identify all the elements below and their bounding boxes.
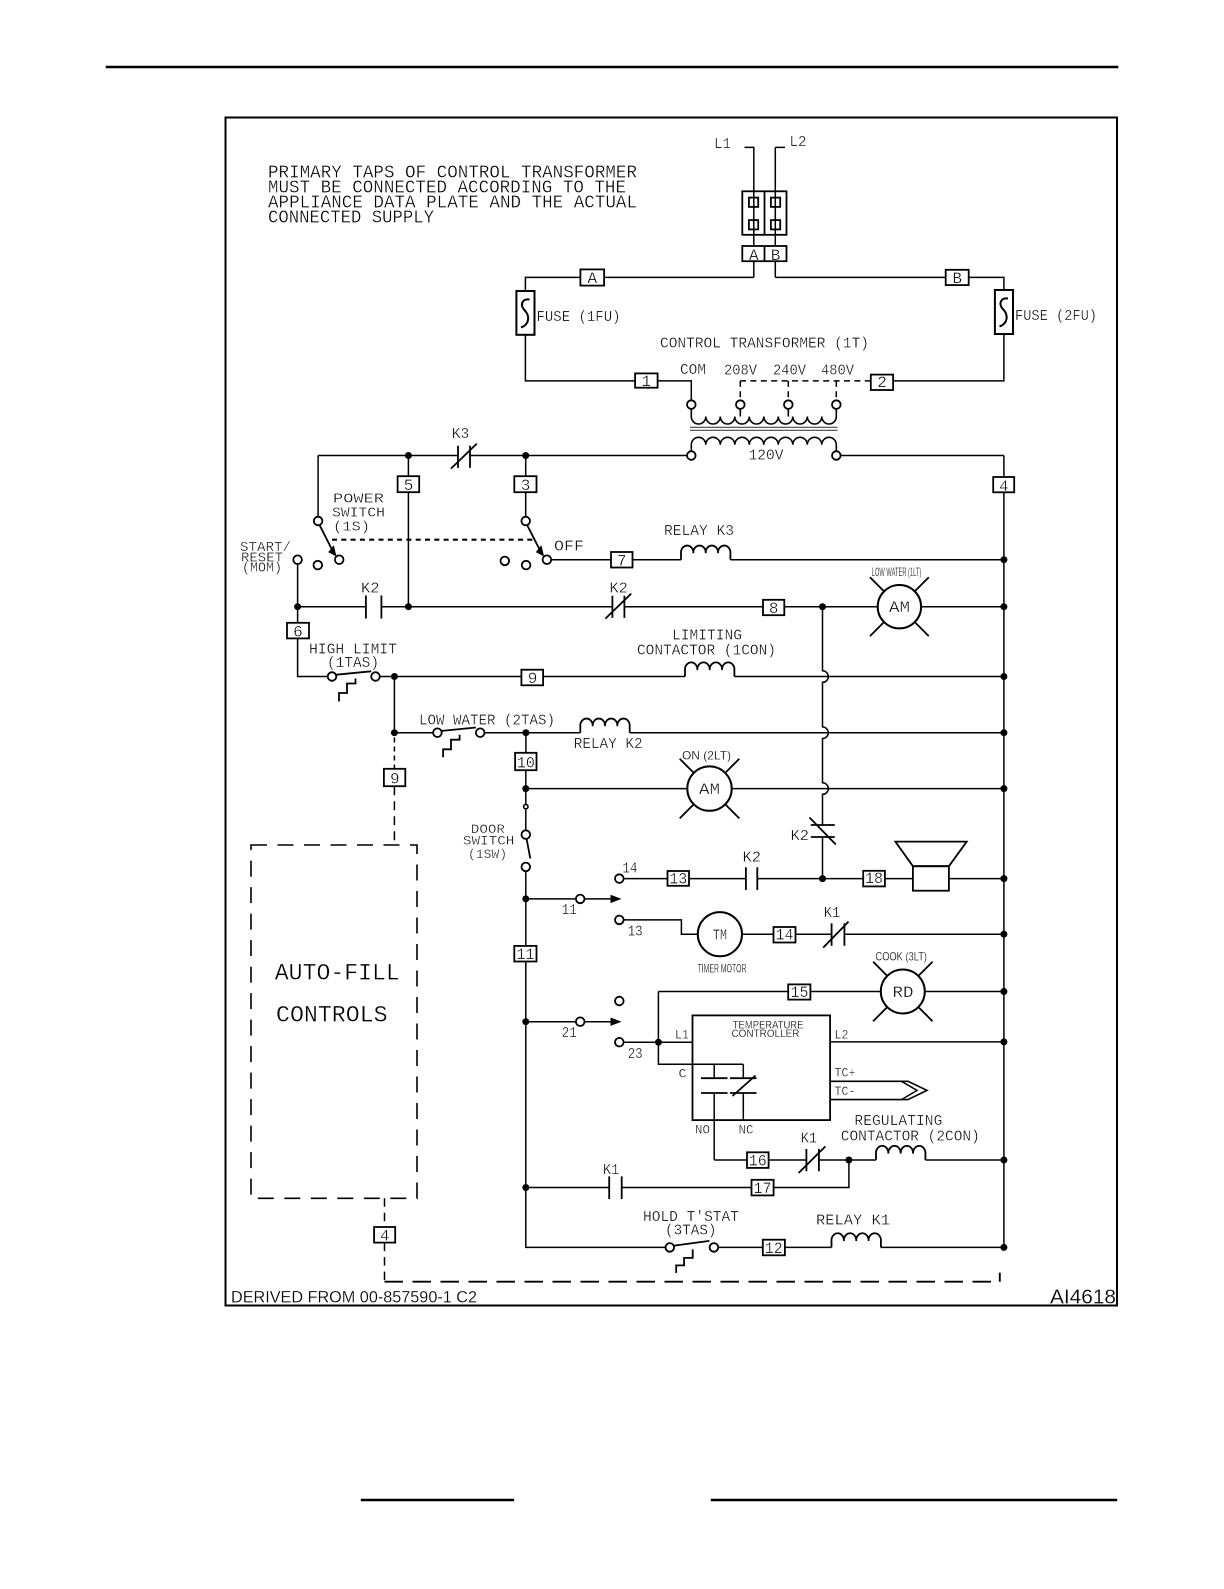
lamp 2LT rays: [680, 759, 740, 819]
wire box10 stub: [525, 733, 527, 753]
relay K2 coil: [580, 719, 629, 733]
svg-text:A: A: [749, 247, 759, 265]
wire tag 14 to K1 NC: [796, 933, 832, 935]
transformer 1T primary terminal 240V: [784, 400, 793, 409]
svg-text:K2: K2: [361, 581, 380, 598]
contact K1 NC rung 13: [823, 922, 848, 948]
wire rung 17 to K1 NO: [526, 1187, 609, 1189]
svg-text:23: 23: [628, 1046, 643, 1063]
node tag 4 auto-fill: [374, 1227, 395, 1243]
node tag 3: [514, 476, 536, 492]
wire 120V rail right: [841, 455, 1004, 457]
svg-text:L1: L1: [714, 136, 731, 153]
svg-text:480V: 480V: [821, 362, 854, 379]
controller internal NO drop: [713, 1064, 715, 1078]
node tag 1: [635, 373, 658, 387]
node tag 6: [297, 607, 299, 623]
svg-text:6: 6: [293, 623, 303, 641]
svg-text:LOW WATER (2TAS): LOW WATER (2TAS): [419, 713, 555, 730]
wire relay K3 coil to right rail: [730, 559, 1004, 561]
svg-text:3: 3: [521, 477, 531, 495]
svg-text:CONTROLS: CONTROLS: [276, 1003, 388, 1029]
thermostat 3TAS heater element: [676, 1249, 693, 1273]
door switch 1SW blade: [527, 839, 531, 859]
node tag 9 auto-fill: [384, 769, 405, 786]
wire tag 16 to K1 NC: [769, 1159, 807, 1161]
timer switch common arm rung 21: [526, 1021, 614, 1023]
junction dot rung14 rail: [1000, 875, 1007, 882]
node tag 9: [521, 670, 543, 686]
wire bus A left: [604, 276, 754, 278]
svg-text:RELAY K2: RELAY K2: [574, 736, 643, 753]
svg-text:K2: K2: [609, 581, 628, 598]
svg-text:CONTACTOR (1CON): CONTACTOR (1CON): [637, 643, 776, 660]
power switch 1S right blade: [527, 525, 540, 551]
svg-text:K1: K1: [824, 905, 841, 922]
connector pin square L1 upper: [749, 198, 758, 207]
junction dot vertical tap on rung 8: [819, 603, 826, 610]
svg-text:LOW WATER (1LT): LOW WATER (1LT): [872, 565, 922, 579]
junction dot L1 node: [655, 1039, 662, 1046]
lamp 3LT body: [881, 970, 925, 1014]
door switch 1SW upper contact: [522, 830, 531, 839]
power switch 1S left blade: [320, 525, 333, 551]
controller internal NC contact plates: [730, 1078, 757, 1093]
junction dot rung9 rail: [1000, 673, 1007, 680]
junction dot rung16 rail: [1000, 1157, 1007, 1164]
wire K2 NO to tag 18: [757, 878, 863, 880]
wire tag 9 to 1CON coil: [543, 676, 685, 678]
junction dot timer rung 11: [522, 895, 529, 902]
svg-text:TM: TM: [713, 928, 728, 945]
fuse 2FU body: [995, 290, 1013, 334]
svg-text:COOK (3LT): COOK (3LT): [876, 950, 928, 964]
svg-text:A: A: [587, 270, 597, 288]
svg-text:CONTACTOR (2CON): CONTACTOR (2CON): [841, 1128, 980, 1145]
junction dot rung13 rail: [1000, 931, 1007, 938]
svg-text:L1: L1: [675, 1027, 689, 1042]
node tag 10: [515, 753, 536, 770]
svg-text:9: 9: [528, 670, 538, 688]
svg-text:208V: 208V: [724, 362, 757, 379]
fuse 1FU body: [516, 291, 534, 335]
wire K1 NC to rail: [844, 933, 1004, 935]
transformer 1T primary terminal 480V: [832, 400, 841, 409]
door switch 1SW lower contact: [522, 863, 531, 872]
wire tag 13 to K2 NO: [689, 878, 746, 880]
wire TM to tag 14: [742, 933, 774, 935]
node tag 8: [763, 600, 784, 615]
node tag 18: [863, 871, 885, 887]
dashed wire auto-fill box to tag 4: [384, 1198, 386, 1227]
svg-text:RD: RD: [893, 984, 914, 1002]
wire K2 rung left: [298, 606, 366, 608]
lamp 1LT body: [878, 585, 921, 628]
svg-text:13: 13: [669, 870, 687, 888]
svg-text:DERIVED FROM 00-857590-1 C2: DERIVED FROM 00-857590-1 C2: [231, 1289, 477, 1307]
junction dot box5 line on K2 rung: [405, 603, 412, 610]
wire to 2TAS: [394, 732, 433, 734]
contact K2 NC on vertical branch: [810, 818, 836, 845]
svg-text:RELAY K3: RELAY K3: [664, 523, 734, 540]
svg-text:SWITCH: SWITCH: [463, 835, 515, 849]
svg-text:7: 7: [617, 553, 627, 571]
svg-text:B: B: [771, 247, 781, 265]
contactor coil 1CON: [685, 662, 734, 676]
contact K1 NO rung 17: [609, 1176, 622, 1199]
node tag 7: [611, 552, 633, 568]
wire L2 through connector to B: [774, 191, 776, 277]
timer contact 13: [615, 916, 624, 925]
wire lamp 2LT to rail: [732, 788, 1004, 790]
transformer 1T secondary winding: [691, 437, 836, 444]
junction dot rung16-rung17: [845, 1157, 852, 1164]
dashed bottom return rail: [385, 1281, 1000, 1283]
wire rung 16 NO to tag 16: [714, 1159, 747, 1161]
svg-text:TC-: TC-: [835, 1084, 856, 1099]
door switch 1SW small bead: [524, 804, 528, 808]
junction dot L2 rail: [1000, 1038, 1007, 1045]
wire lamp 1LT to rail: [921, 606, 1004, 608]
power switch 1S right contacts: [501, 557, 510, 566]
node tag 13: [668, 871, 690, 886]
connector pin square L1 lower: [749, 220, 758, 229]
svg-text:AM: AM: [699, 781, 720, 799]
wire K2 NC to tag 8: [624, 606, 763, 608]
wire right rail vertical: [1003, 456, 1005, 1248]
note text block: [268, 164, 637, 229]
wire buzzer to rail: [949, 878, 1004, 880]
wire K2 NO to K2 NC: [381, 606, 612, 608]
junction dot relay K3 rail: [1000, 556, 1007, 563]
temperature controller box: [693, 1015, 831, 1120]
svg-text:L2: L2: [835, 1027, 849, 1042]
node tag A: [580, 269, 604, 285]
timer switch common arm rung 11: [526, 898, 614, 900]
node tag B: [946, 270, 969, 285]
svg-text:18: 18: [865, 870, 883, 888]
wire tag 18 to buzzer: [885, 878, 913, 880]
transformer 1T primary winding: [691, 409, 836, 417]
controller NO leg out of box: [713, 1093, 715, 1160]
bottom rule left: [362, 1499, 513, 1501]
wire K1 NO to tag 17: [622, 1187, 752, 1189]
junction dot rung12 rail: [1000, 1244, 1007, 1251]
svg-text:K2: K2: [743, 850, 762, 867]
node tag 4 on right rail: [993, 477, 1014, 492]
wire contact 23 to L1: [624, 1041, 693, 1043]
controller NC leg to box edge: [742, 1093, 744, 1120]
controller internal NO contact plates: [701, 1078, 728, 1093]
contact K2 NC on rung: [605, 594, 631, 619]
vertical branch wire with hops from rung8 down: [823, 607, 829, 825]
wire to lamp 2LT: [526, 788, 688, 790]
dashed wire tag 9 to auto-fill box: [393, 786, 395, 845]
svg-text:1: 1: [641, 373, 651, 391]
node tag 16: [747, 1152, 769, 1168]
thermostat 1TAS blade: [337, 671, 372, 674]
svg-text:8: 8: [769, 600, 779, 618]
svg-text:(1SW): (1SW): [468, 848, 507, 862]
terminal label box A|B: [742, 246, 786, 261]
power switch 1S left pole pivot: [314, 517, 323, 526]
junction dot rung8 rail: [1000, 603, 1007, 610]
wire box5 stub: [407, 456, 409, 607]
svg-text:4: 4: [999, 478, 1009, 496]
wire 2CON coil to rail: [925, 1159, 1004, 1161]
svg-text:9: 9: [390, 770, 400, 788]
thermocouple chevron: [902, 1081, 918, 1099]
svg-text:K2: K2: [791, 828, 810, 845]
junction dot box10 branch: [522, 729, 529, 736]
svg-text:12: 12: [765, 1240, 783, 1258]
node L2 lead: [775, 147, 785, 191]
node L1 lead: [745, 147, 754, 191]
wire L1 through connector to A: [753, 191, 755, 277]
svg-text:OFF: OFF: [554, 539, 584, 556]
wire L2 to rail: [830, 1041, 1004, 1043]
controller internal NC drop: [742, 1064, 744, 1078]
wire contact 14 to tag 13: [624, 878, 668, 880]
svg-text:(3TAS): (3TAS): [665, 1222, 717, 1239]
dashed wire tag 4 to bottom rail: [384, 1243, 386, 1282]
connector plug P1 body: [742, 191, 786, 235]
connector pin square L2 upper: [771, 198, 780, 207]
svg-text:5: 5: [404, 477, 414, 495]
svg-text:COM: COM: [680, 362, 706, 379]
power switch 1S right pole pivot: [521, 517, 530, 526]
thermostat 3TAS blade: [674, 1241, 709, 1246]
svg-text:L2: L2: [790, 134, 807, 151]
svg-text:11: 11: [516, 946, 534, 964]
wire L1 node up to rung 15: [657, 992, 659, 1043]
svg-text:AI4618: AI4618: [1050, 1286, 1116, 1309]
node tag 11: [514, 946, 536, 962]
contact K1 NC rung 16: [799, 1146, 826, 1173]
dashed tap bus to 208/240/480: [740, 380, 871, 382]
svg-text:RELAY K1: RELAY K1: [816, 1212, 890, 1229]
wire rail down to rung 12: [526, 1188, 666, 1248]
svg-text:10: 10: [517, 754, 535, 772]
wire B to fuse 2FU: [969, 277, 1004, 290]
junction dot rung17 left: [522, 1184, 529, 1191]
schematic border frame: [226, 118, 1118, 1306]
node tag 2: [871, 375, 893, 390]
wire 2TAS to K2 coil: [485, 732, 581, 734]
svg-text:14: 14: [622, 860, 637, 877]
dashed bottom rail riser: [999, 1266, 1001, 1282]
svg-text:AUTO-FILL: AUTO-FILL: [275, 961, 400, 987]
node tag 17: [752, 1180, 774, 1196]
wire left rail down to power switch: [317, 456, 319, 517]
wire tag 1 to COM: [658, 381, 692, 400]
junction dot 1TAS-2TAS branch: [391, 673, 398, 680]
wire contact 13 to timer motor: [624, 920, 698, 934]
wire bus B right: [775, 276, 945, 278]
transformer 1T secondary terminal right: [832, 451, 841, 460]
contact K2 NO rung 14: [746, 867, 757, 890]
relay K1 coil: [831, 1233, 880, 1247]
wire 120V rail left: [318, 455, 687, 457]
node tag 5: [398, 476, 420, 492]
svg-text:(1S): (1S): [333, 520, 370, 536]
bottom rule right: [712, 1499, 1116, 1501]
svg-text:21: 21: [562, 1025, 577, 1042]
svg-text:CONNECTED SUPPLY: CONNECTED SUPPLY: [268, 209, 434, 229]
thermostat 2TAS low water contacts: [433, 728, 442, 737]
svg-text:17: 17: [754, 1180, 772, 1198]
node tag 15: [788, 984, 810, 999]
transformer 1T core: [690, 427, 838, 430]
svg-text:240V: 240V: [773, 362, 806, 379]
svg-text:K1: K1: [801, 1130, 818, 1147]
junction dot rung10 rail: [1000, 729, 1007, 736]
svg-text:14: 14: [776, 926, 794, 944]
dashed gang link between poles: [332, 539, 533, 541]
svg-text:C: C: [679, 1067, 687, 1082]
transformer 1T primary terminal 208V: [736, 400, 745, 409]
wire fuse 2FU to tag 2: [893, 334, 1004, 381]
lamp 2LT body: [687, 766, 731, 810]
svg-text:11: 11: [562, 902, 577, 919]
node tag 12: [763, 1240, 785, 1256]
thermostat 1TAS heater element: [339, 679, 356, 702]
timer contact 23: [615, 1038, 624, 1047]
svg-text:2: 2: [877, 374, 887, 392]
wire 1CON coil to rail: [734, 676, 1004, 678]
wire lamp 3LT to rail: [925, 991, 1004, 993]
svg-text:TIMER MOTOR: TIMER MOTOR: [698, 962, 747, 976]
thermostat 2TAS heater element: [443, 735, 460, 758]
auto-fill controls dashed enclosure: [251, 845, 417, 1198]
wire rung 15 to tag 15: [658, 991, 788, 993]
svg-text:ON (2LT): ON (2LT): [682, 749, 731, 763]
svg-text:TC+: TC+: [835, 1065, 856, 1080]
svg-text:16: 16: [749, 1152, 767, 1170]
thermocouple probe TC: [830, 1081, 927, 1099]
thermostat 2TAS blade: [442, 728, 476, 731]
wire 3TAS to tag 12: [718, 1246, 763, 1248]
wire bead stubs: [525, 789, 527, 831]
svg-text:FUSE (1FU): FUSE (1FU): [537, 309, 621, 326]
junction dot rung 2LT rail: [1000, 785, 1007, 792]
buzzer body: [913, 866, 949, 891]
timer motor TM body: [698, 912, 742, 956]
wire OFF contact to tag 7: [551, 559, 611, 561]
wire box3 stub: [525, 456, 527, 517]
connector pin square L2 lower: [771, 220, 780, 229]
wire tag 17 up to junction: [774, 1160, 849, 1188]
junction dot vertical branch rung 14: [819, 875, 826, 882]
power switch 1S left contacts: [293, 555, 302, 564]
dashed wire to auto-fill tag 9: [393, 738, 395, 769]
svg-text:K1: K1: [603, 1162, 620, 1179]
svg-text:CONTROLLER: CONTROLLER: [732, 1028, 800, 1040]
svg-text:AM: AM: [889, 599, 910, 617]
junction dot rail-box3: [522, 452, 529, 459]
svg-text:B: B: [952, 270, 962, 288]
contactor coil 2CON: [876, 1146, 925, 1160]
page top rule: [107, 66, 1117, 69]
wire tag 7 to relay K3 coil: [633, 559, 682, 561]
timer contact upper unused: [615, 997, 624, 1006]
svg-text:CONTROL TRANSFORMER (1T): CONTROL TRANSFORMER (1T): [660, 336, 869, 353]
wire L1 node down to C terminal: [658, 1042, 743, 1064]
transformer 1T primary terminal COM: [687, 400, 696, 409]
junction dot rail-box5: [405, 452, 412, 459]
svg-text:(1TAS): (1TAS): [327, 655, 379, 672]
wire tag 12 to K1 coil: [785, 1246, 832, 1248]
wire 1TAS to tag 9: [380, 676, 522, 678]
node tag 14: [774, 927, 796, 943]
contact K2 NO on rung: [366, 596, 382, 619]
timer contact 14: [615, 874, 624, 883]
wire tag 6 to high limit: [298, 638, 328, 676]
wire tag 15 to lamp 3LT: [810, 991, 880, 993]
wire K2 NC vertical to rung 14: [822, 837, 824, 879]
wire tag 8 to lamp 1LT: [784, 606, 877, 608]
svg-text:120V: 120V: [749, 448, 784, 465]
wire K1 coil to rail: [881, 1246, 1004, 1248]
svg-text:(MOM): (MOM): [242, 562, 282, 577]
lamp 3LT rays: [873, 962, 932, 1021]
wire tag 10 down: [525, 770, 527, 788]
junction dot ON lamp rung: [522, 785, 529, 792]
junction dot low water rung left: [391, 729, 398, 736]
wire branch down to low water rung: [393, 677, 395, 733]
controller internal NC slash: [733, 1076, 756, 1097]
svg-text:15: 15: [791, 984, 809, 1002]
wire start/reset contact down: [297, 564, 299, 607]
thermostat 3TAS contacts: [666, 1243, 675, 1252]
wire fuse 1FU to tag 1: [525, 335, 635, 381]
contact K3 NC on 120V rail: [451, 444, 477, 469]
svg-text:NO: NO: [695, 1123, 710, 1138]
wire A to fuse 1FU: [525, 277, 580, 291]
wire K2 coil to rail: [630, 732, 1004, 734]
wire K1 NC to 2CON coil: [819, 1159, 876, 1161]
svg-text:NC: NC: [739, 1123, 754, 1138]
junction dot start/reset rung: [294, 603, 301, 610]
thermostat 1TAS high limit contacts: [328, 672, 337, 681]
buzzer horn: [895, 842, 966, 867]
svg-text:FUSE (2FU): FUSE (2FU): [1015, 308, 1097, 325]
junction dot rung15 rail: [1000, 988, 1007, 995]
svg-text:4: 4: [380, 1228, 390, 1246]
relay K3 coil: [681, 546, 730, 560]
svg-text:13: 13: [628, 924, 643, 941]
wire tag 11 down: [525, 962, 527, 1188]
svg-text:K3: K3: [452, 426, 470, 443]
transformer 1T secondary terminal left: [687, 451, 696, 460]
junction dot timer rung 21: [522, 1018, 529, 1025]
lamp 1LT rays: [870, 577, 929, 636]
wire door switch to box 11: [525, 871, 527, 946]
svg-text:REGULATING: REGULATING: [854, 1113, 942, 1130]
